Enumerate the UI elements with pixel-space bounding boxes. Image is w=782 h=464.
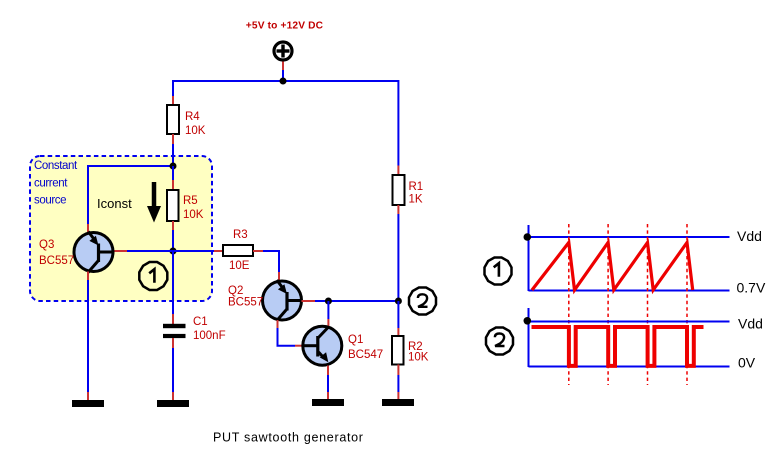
resistor R5 (167, 190, 179, 221)
svg-text:0V: 0V (738, 354, 756, 370)
wire top rail (173, 80, 398, 82)
power supply symbol (274, 42, 292, 60)
ground (C1) (157, 400, 189, 407)
svg-text:Vdd: Vdd (737, 228, 762, 244)
resistor R3 (223, 245, 253, 256)
junction Q2 base node (325, 298, 332, 305)
resistor R2 (392, 336, 404, 365)
svg-text:R4: R4 (185, 111, 200, 123)
label Q1 BC547 (348, 334, 383, 361)
svg-text:R5: R5 (183, 195, 198, 207)
wire R5 to base node (172, 221, 174, 251)
svg-text:1K: 1K (409, 194, 423, 206)
label Q3 BC557 (39, 239, 74, 267)
label R3 10E (229, 229, 250, 272)
svg-text:10K: 10K (183, 209, 204, 221)
wire C1 to ground (172, 338, 174, 400)
ground (R2) (382, 399, 414, 406)
svg-text:Iconst: Iconst (97, 196, 132, 211)
constant current source box (30, 156, 212, 301)
transistor Q3 (74, 232, 113, 273)
node label 1 (waveform) (485, 258, 512, 285)
node 2 label circle (409, 288, 436, 315)
label R5 10K (183, 195, 204, 221)
svg-text:current: current (34, 177, 68, 189)
wire C1 branch (172, 251, 174, 324)
dashed sync lines (569, 224, 687, 385)
label Q2 BC557 (228, 285, 263, 309)
svg-text:Constant: Constant (34, 160, 78, 172)
wire right rail top (397, 80, 399, 175)
svg-text:BC547: BC547 (348, 349, 383, 361)
svg-text:10K: 10K (408, 352, 429, 364)
wire box node to Q3 emitter (88, 166, 173, 233)
wire Q3 base to node (113, 250, 173, 252)
wire power symbol to rail (282, 62, 284, 82)
caption PUT sawtooth generator (213, 431, 364, 445)
svg-text:0.7V: 0.7V (737, 280, 766, 296)
svg-text:BC557: BC557 (228, 297, 263, 309)
label 0.7V (737, 280, 766, 296)
wire Q2 collector to Q1 base (278, 320, 305, 346)
wire node 2 to R2 (397, 301, 399, 336)
transistor Q2 (263, 280, 302, 321)
junction node 2 (395, 298, 402, 305)
svg-text:source: source (34, 195, 66, 207)
svg-text:Vdd: Vdd (738, 316, 763, 332)
label: Constant current source (34, 160, 78, 207)
resistor R4 (167, 105, 179, 134)
wire R3 to Q2 emitter (253, 251, 279, 282)
supply label +5V to +12V DC (246, 21, 324, 32)
waveform 2 origin dot (524, 317, 532, 325)
waveform 2 axes (529, 308, 730, 367)
node label 2 (waveform) (486, 328, 513, 355)
svg-text:+5V to +12V DC: +5V to +12V DC (246, 21, 324, 32)
capacitor C1 (163, 324, 186, 338)
ground (Q1) (312, 399, 344, 406)
Iconst arrow (147, 182, 161, 223)
junction base node (170, 248, 177, 255)
svg-text:10E: 10E (229, 260, 250, 272)
waveform 1 axes (529, 225, 730, 291)
svg-text:10K: 10K (185, 125, 206, 137)
wire Q2 base to node 2 (302, 300, 399, 302)
wire R1 to node 2 (397, 205, 399, 301)
resistor R1 (393, 175, 405, 205)
wire Q3 collector to ground (87, 272, 89, 401)
svg-text:C1: C1 (193, 316, 208, 328)
junction at power rail (280, 78, 287, 85)
ground (Q3) (72, 400, 104, 407)
junction box top node (170, 163, 177, 170)
label R2 10K (408, 341, 429, 364)
wire R2 to ground (397, 365, 399, 400)
svg-text:R3: R3 (233, 229, 248, 241)
svg-text:PUT sawtooth generator: PUT sawtooth generator (213, 431, 364, 445)
node 1 label circle (139, 262, 167, 290)
wire node to R5 (172, 166, 174, 190)
label C1 100nF (193, 316, 226, 342)
svg-text:Q1: Q1 (348, 334, 363, 346)
svg-text:100nF: 100nF (193, 330, 226, 342)
svg-text:Q2: Q2 (228, 285, 243, 297)
svg-text:R1: R1 (409, 181, 424, 193)
wire Q1 emitter to ground (327, 366, 329, 400)
wire R4 to box node (172, 134, 174, 166)
transistor Q1 (303, 326, 342, 365)
wire rail to R4 (172, 80, 174, 105)
label Vdd (waveform 2) (738, 316, 763, 332)
label R1 1K (409, 181, 424, 206)
svg-text:BC557: BC557 (39, 255, 74, 267)
label R4 10K (185, 111, 206, 137)
pulse trace (532, 327, 704, 366)
waveform 1 origin dot (524, 233, 532, 241)
label 0V (738, 354, 756, 370)
label Iconst (97, 196, 132, 211)
wire junction to Q1 collector (327, 301, 329, 327)
sawtooth trace (532, 243, 693, 291)
svg-text:Q3: Q3 (39, 239, 54, 251)
wire base node to R3 (173, 250, 223, 252)
label Vdd (waveform 1) (737, 228, 762, 244)
